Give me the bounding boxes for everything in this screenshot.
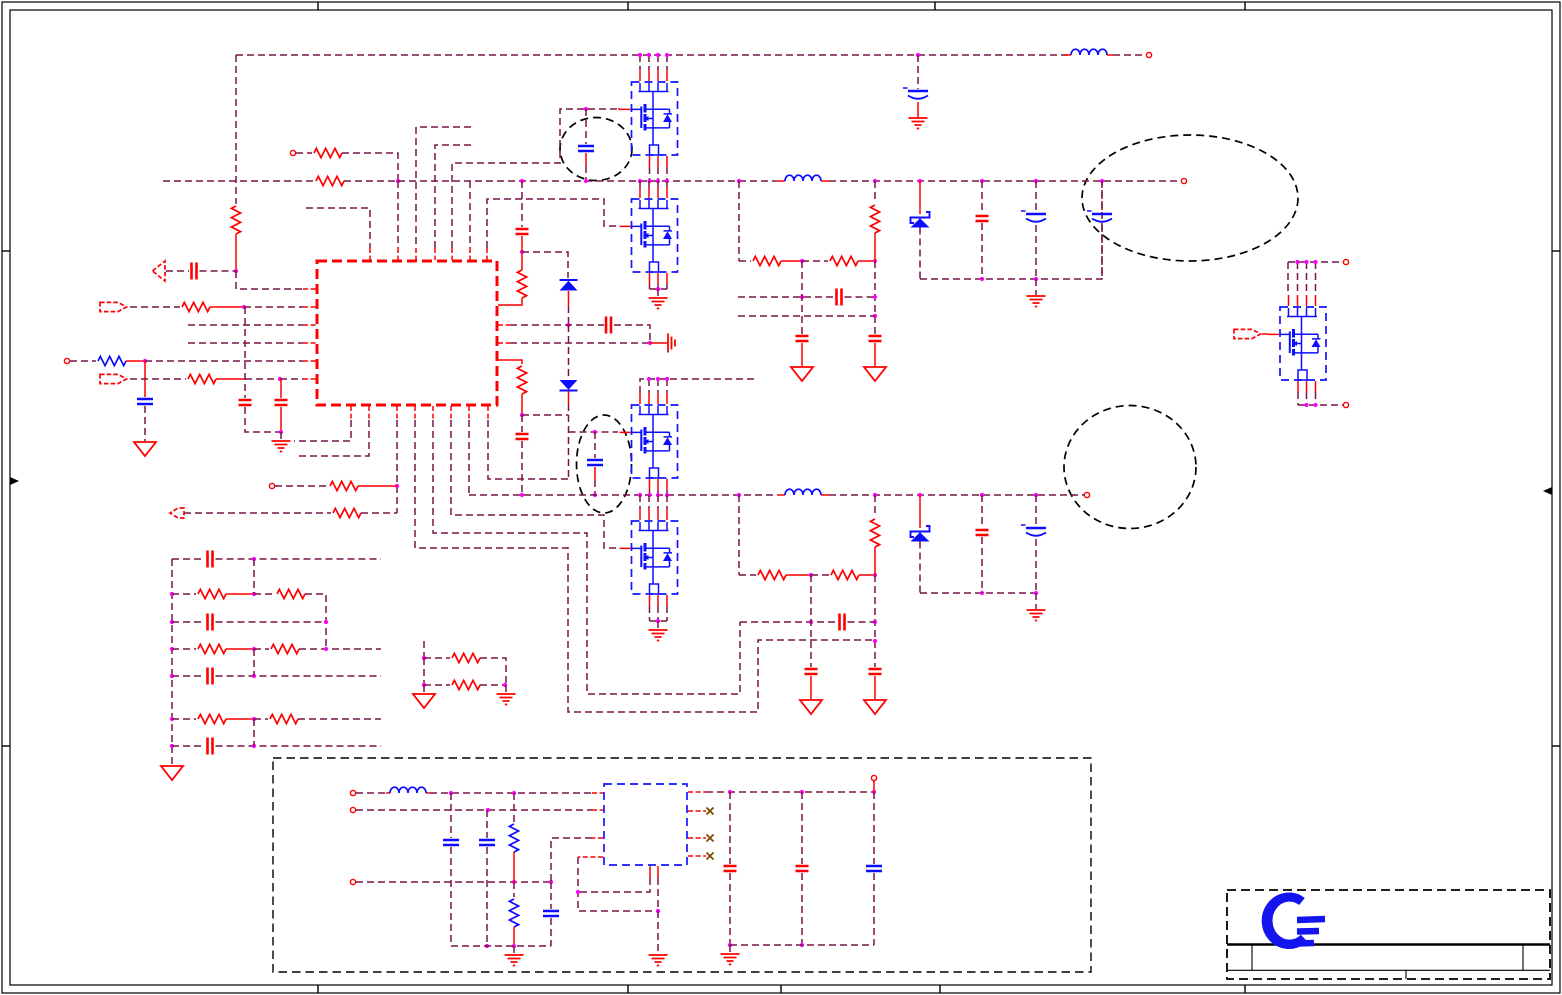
schottky diode D3 (buck1): [911, 212, 930, 228]
ground earth (730,954): [721, 954, 740, 965]
wire Q3 source pins to rail 495: [650, 490, 668, 495]
node junction (451,793): [449, 791, 453, 795]
MOSFET block Q5 (right side switch): [1268, 295, 1326, 392]
ground earth (506,694): [497, 694, 516, 705]
node junction (326,649): [324, 647, 328, 651]
node junction (875,181): [873, 179, 877, 183]
title block cell bottom line: [1227, 969, 1550, 971]
wire column 982: [981, 495, 983, 528]
terminal (67,361): [64, 358, 69, 363]
terminal (293,153): [290, 150, 295, 155]
node junction (982,495): [980, 493, 984, 497]
power arrow terminal (row 513): [170, 508, 184, 518]
wire Q2 drain pins from rail 181: [640, 181, 667, 187]
capacitor C30 (column 802): [796, 866, 809, 871]
wire column 487: [486, 810, 488, 838]
resistor R1 (in vertical branch x=236): [231, 206, 240, 234]
resistor R25 blue (column 514 upper): [509, 824, 518, 852]
ground earth (281,441): [272, 441, 291, 452]
node junction (254,559): [252, 557, 256, 561]
company logo bar 1: [1297, 919, 1325, 920]
node junction (505,685): [503, 683, 507, 687]
resistor R22 (row 719): [270, 714, 298, 723]
node junction (595,495): [593, 493, 597, 497]
wire inductor to terminal: [1064, 54, 1113, 56]
wire column 424: [423, 658, 425, 685]
capacitor C7 (column 522): [516, 229, 529, 234]
node junction (280,379): [278, 377, 282, 381]
inductor L4: [390, 787, 426, 793]
wire column 802: [801, 792, 803, 864]
ground triangle (172,766): [161, 766, 183, 780]
wire feedback row y=316: [738, 315, 875, 317]
highlight ellipse 1 (top right): [1082, 135, 1298, 261]
title block divider line: [1227, 943, 1550, 945]
node junction (488,810): [486, 808, 490, 812]
wire to earth: [513, 946, 515, 954]
node junction (1306.5,262): [1304, 260, 1308, 264]
ground earth (1036,296): [1027, 296, 1046, 307]
IC left pin row y=325: [188, 324, 303, 326]
node junction (802,261): [800, 259, 804, 263]
wire down to input cap: [917, 55, 919, 89]
resistor R2 (row 153): [314, 148, 342, 157]
resistor R7 (row 486): [330, 481, 358, 490]
terminal (1087,495): [1084, 492, 1089, 497]
wire junction to diode column: [522, 252, 568, 278]
MOSFET Q5 top rail y=262: [1288, 261, 1343, 263]
wire LDO pin y=838 to column 551: [592, 837, 603, 839]
inductor L2 (buck1 output) leads: [777, 180, 829, 182]
node junction (487,946): [485, 944, 489, 948]
resistor R12 (row 261): [830, 256, 858, 265]
wire row E y=676: [172, 675, 205, 677]
wire to schottky diode: [919, 495, 921, 528]
wire between divider resistors: [781, 260, 802, 262]
wire Q5 source pins to row 405: [1298, 392, 1343, 405]
capacitor C25 (row 746): [208, 738, 213, 755]
highlight ellipse 3 (around C at buck2 input): [577, 415, 632, 513]
capacitor C27 blue (column 487): [479, 840, 495, 845]
resistor R8 (row 513): [333, 508, 361, 517]
node junction (172,622): [170, 620, 174, 624]
node junction (875,261): [873, 259, 877, 263]
frame zone tick top 1: [317, 2, 319, 10]
frame zone tick bottom 2: [627, 985, 629, 993]
frame zone tick left 1: [2, 250, 10, 252]
IC bottom pin x=415 long route to buck2 fb row 640: [414, 406, 416, 420]
frame zone tick bottom 4: [1244, 985, 1246, 993]
power stage MOSFET block Q1 (buck1 high side): [620, 70, 678, 167]
ground earth (658,955): [649, 955, 668, 966]
node junction (424,658): [422, 656, 426, 660]
node junction (281,432): [279, 430, 283, 434]
wire diode to bottom row: [919, 542, 921, 594]
node junction (982,593): [980, 591, 984, 595]
node junction (522,415): [520, 413, 524, 417]
wire cap to ground triangle: [810, 676, 812, 699]
node junction (920,181): [918, 179, 922, 183]
terminal (1150,55): [1146, 52, 1151, 57]
small RC network stub: [423, 641, 425, 658]
node junction (586,109): [584, 107, 588, 111]
wire cap to ground triangle: [874, 343, 876, 366]
wire terminal to resistor: [296, 152, 312, 154]
capacitor column x=281 from row 379: [280, 379, 282, 398]
terminal (353,882): [350, 879, 355, 884]
wire terminal to blue resistor: [70, 360, 96, 362]
node junction (254,649): [252, 647, 256, 651]
wire junction to IC: [145, 360, 303, 362]
node junction (1306.5,405): [1304, 403, 1308, 407]
wire column 1036: [1035, 181, 1037, 212]
node junction (578,892): [576, 890, 580, 894]
wire Q1 gate stub: [618, 108, 620, 110]
wire junction to earth: [1035, 279, 1037, 295]
wire column 551 lower: [550, 882, 552, 909]
node junction (397,486): [395, 484, 399, 488]
wire column 875 rail to resistor: [874, 495, 876, 517]
IC left pin row y=343: [188, 342, 303, 344]
node junction (649,379): [647, 377, 651, 381]
capacitor C22 (row 559): [208, 551, 213, 568]
node junction (730,792): [728, 790, 732, 794]
wire resistor to corner: [342, 153, 398, 181]
diode D1 (pointing up): [560, 280, 578, 291]
resistor R16 (column 875 buck2 fb): [870, 519, 879, 547]
ground earth (658,630): [649, 630, 668, 641]
resistor R15 (row 575): [831, 570, 859, 579]
frame zone tick top 4: [1244, 2, 1246, 10]
node junction (172,594): [170, 592, 174, 596]
node junction (640,55): [638, 53, 642, 57]
wire Q1 drain pins to top rail: [640, 55, 667, 70]
capacitor C9 (column 522 low): [516, 434, 529, 439]
title block cell left divider: [1251, 945, 1253, 971]
no-connect X (711,856): [707, 853, 714, 860]
company logo ring: [1268, 897, 1304, 944]
terminal (353,810): [350, 807, 355, 812]
node junction (236,271): [234, 269, 238, 273]
node junction (595,432): [593, 430, 597, 434]
node junction (658,379): [656, 377, 660, 381]
resistor R26 blue (column 514 lower): [509, 899, 518, 927]
node junction (875,575): [873, 573, 877, 577]
wire cap down to rail 495: [521, 441, 523, 495]
wire diode to bottom row: [919, 228, 921, 280]
resistor R6 (row 379): [188, 374, 216, 383]
wire Q5 drain pins: [1288, 262, 1316, 295]
main controller IC U1: [317, 261, 497, 405]
resistor R17 (row 594): [198, 589, 226, 598]
polarized capacitor C2 (input bulk): [903, 88, 928, 99]
wire Q1 source pins to rail 181: [650, 167, 668, 181]
wire row y=882: [356, 881, 551, 883]
wire Q3 drain rail y=379: [640, 379, 758, 393]
wire cap to ground triangle: [801, 343, 803, 366]
inductor L3: [785, 489, 821, 495]
schottky diode D4 (buck2): [911, 526, 930, 542]
wire cap column x=586 upper: [585, 109, 587, 144]
node junction (172,746): [170, 744, 174, 748]
capacitor C26 blue (column 451): [443, 840, 459, 845]
node junction (172,649): [170, 647, 174, 651]
wire column 802 down: [801, 261, 803, 334]
no-connect X (711,811): [707, 808, 714, 815]
wire column 875 down: [874, 261, 876, 334]
wire rail y=181 left segment: [163, 180, 313, 182]
wire between divider resistors: [786, 574, 811, 576]
frame center arrow right: [1543, 487, 1552, 495]
node junction (254,746): [252, 744, 256, 748]
node junction (551,882): [549, 880, 553, 884]
resistor R20 (row 649): [271, 644, 299, 653]
capacitor C20 (column 982): [976, 530, 989, 535]
highlight ellipse 2 (around C at buck1 input): [560, 118, 632, 181]
wire column 522 down to cap: [521, 415, 523, 432]
node junction (254,719): [252, 717, 256, 721]
wire rail y=181 middle segment: [398, 180, 777, 182]
node junction (640,181): [638, 179, 642, 183]
node junction (658,495): [656, 493, 660, 497]
node junction (424,685): [422, 683, 426, 687]
node junction (739,181): [737, 179, 741, 183]
node junction (802,297): [800, 295, 804, 299]
wire terminal to inductor: [356, 792, 386, 794]
ground triangle (811,700): [800, 700, 822, 714]
node junction (145,361): [143, 359, 147, 363]
wire row y=810 to LDO: [356, 809, 592, 811]
wire capacitor to junction: [200, 270, 237, 272]
wire IC top pin x=435: [435, 145, 471, 248]
node junction (522,495): [520, 493, 524, 497]
LDO no-connect pin y=838: [688, 837, 706, 839]
wire column 739 down to divider row: [738, 181, 740, 261]
capacitor C1 (row 271): [192, 263, 197, 280]
frame zone tick bottom 1: [317, 985, 319, 993]
wire column 1036: [1035, 495, 1037, 526]
top rail wire y=55: [236, 54, 1068, 56]
node junction (982,181): [980, 179, 984, 183]
IC bottom pin x=488 route to gate net: [487, 406, 489, 420]
node junction (649.5,495): [647, 493, 651, 497]
IC bottom pin x=433 route to buck2 fb row 622: [432, 406, 434, 420]
capacitor C28 blue (column 551): [543, 911, 559, 916]
wire column 875 rail to resistor: [874, 181, 876, 203]
wire junction to ground earth: [280, 432, 282, 440]
wire row D y=649: [172, 648, 196, 650]
no-connect X (711,838): [707, 835, 714, 842]
node junction (802,792): [800, 790, 804, 794]
wire row A y=559: [172, 558, 205, 560]
node junction (326,622): [324, 620, 328, 624]
LDO regulator U2: [604, 784, 687, 865]
terminal (353,793): [350, 790, 355, 795]
capacitor C12 (column 802): [796, 336, 809, 341]
capacitor C24 (row 676): [208, 668, 213, 685]
IC bottom pin x=397 column: [396, 406, 398, 420]
wire row y=685: [424, 684, 450, 686]
polarized capacitor C15 (column 1102): [1101, 181, 1103, 212]
wire cap to junction 252: [521, 236, 523, 252]
capacitor C8 (row 325): [606, 317, 611, 334]
wire to schottky diode: [919, 181, 921, 214]
wire arrow to capacitor: [166, 270, 189, 272]
capacitor C11 (row 297): [837, 289, 842, 306]
capacitor C23 (row 622): [208, 614, 213, 631]
wire LDO output pin y=792: [688, 791, 706, 793]
node junction (172,676): [170, 674, 174, 678]
wire column 874: [873, 792, 875, 864]
wire junction to sideways earth: [650, 342, 667, 344]
wire feedback row y=622: [740, 621, 837, 623]
node junction (522,252): [520, 250, 524, 254]
IC right pin row y=343: [498, 342, 510, 344]
wire to earth: [505, 685, 507, 693]
wire row F y=719: [172, 718, 196, 720]
node junction (640,495): [638, 493, 642, 497]
resistor R19 (row 649): [198, 644, 226, 653]
company logo bar 2: [1297, 928, 1319, 935]
node junction (649.5,181): [647, 179, 651, 183]
wire column x=522 rail to cap: [521, 181, 523, 227]
node junction (802,945): [800, 943, 804, 947]
wire junction to diode column: [522, 414, 569, 416]
wire row C y=622: [172, 621, 205, 623]
wire junction to earth: [657, 621, 659, 629]
IC bottom pin x=451 route to Q4 gate: [450, 406, 452, 420]
IC left pin row y=379 power arrow: [100, 374, 127, 383]
IC bottom pin x=351 to ground row: [350, 406, 352, 420]
frame center arrow left: [10, 477, 19, 485]
node junction (875,495): [873, 493, 877, 497]
node junction (1297.5,262): [1295, 260, 1299, 264]
frame zone tick right 2: [1552, 745, 1560, 747]
bottom sub-circuit enclosure box: [273, 758, 1091, 972]
node junction (658,181): [656, 179, 660, 183]
frame zone tick top 3: [934, 2, 936, 10]
wire junction to earth: [1035, 593, 1037, 609]
node junction (1036,279): [1034, 277, 1038, 281]
capacitor C5 (column 245): [239, 400, 252, 405]
node junction (586,181): [584, 179, 588, 183]
inductor L1 (top rail): [1071, 49, 1107, 55]
resistor R10 (column 522 lower): [517, 366, 526, 394]
wire LDO pin y=857 column 578: [578, 856, 603, 858]
title block outer box: [1227, 890, 1550, 979]
wire cap to corner down: [614, 325, 650, 343]
ground triangle (875,367): [864, 367, 886, 381]
wire LDO bottom pin x=658: [657, 866, 659, 878]
node junction (514,793): [512, 791, 516, 795]
wire Q3 drain pins: [649, 379, 667, 393]
ground earth sideways (662,343): [668, 334, 675, 353]
wire terminal to resistor (row 486): [275, 485, 328, 487]
wire IC top pin x=416: [416, 127, 471, 248]
LDO no-connect pin y=856: [688, 855, 706, 857]
frame zone tick bottom center: [780, 985, 782, 993]
wire feedback row y=297: [738, 296, 834, 298]
node junction (649,55): [647, 53, 651, 57]
title block cell right divider: [1522, 945, 1524, 971]
wire junction to earth: [657, 911, 659, 954]
resistor R3 (row 181): [316, 176, 344, 185]
IC bottom pin x=369 stub row: [368, 406, 370, 420]
wire inductor to LDO pin: [430, 792, 592, 794]
wire IC top pin x=452 to MOSFET Q1 gate: [452, 109, 618, 248]
node junction (254,676): [252, 674, 256, 678]
wire to resistor R11: [739, 260, 751, 262]
wire row B y=594: [172, 593, 196, 595]
wire to resistor R14: [739, 574, 756, 576]
node junction (658,55): [656, 53, 660, 57]
ground triangle (145,442): [134, 442, 156, 456]
wire diode to row 325: [568, 291, 570, 306]
wire column 875 down: [874, 575, 876, 667]
capacitor C16 blue (in ellipse 3): [587, 460, 603, 465]
frame zone tick right 1: [1552, 250, 1560, 252]
IC right pin y=360 stub: [498, 360, 522, 364]
wire row y=658: [424, 657, 450, 659]
wire to ground triangle: [423, 685, 425, 693]
terminal (1184,181): [1181, 178, 1186, 183]
node junction (811,575): [809, 573, 813, 577]
wire column 254 A-B: [253, 559, 255, 594]
resistor R18 (row 594): [277, 589, 305, 598]
node junction (650,343): [648, 341, 652, 345]
capacitor C4 blue (row 361 decouple): [137, 399, 153, 404]
terminal (1346,405): [1343, 402, 1348, 407]
wire resistor to junction 415: [521, 394, 523, 415]
wire to earth: [729, 945, 731, 953]
wire cap to ground: [917, 102, 919, 117]
wire column 811 down: [810, 575, 812, 667]
inductor L4 (bottom box input) leads: [386, 792, 430, 794]
node junction (1315.5,262): [1313, 260, 1317, 264]
wire column 739 to divider row 575: [738, 495, 740, 575]
wire diode column to diode D2: [568, 325, 570, 379]
node junction (982,279): [980, 277, 984, 281]
wire Q2 source pins to ground row: [650, 284, 668, 289]
wire diode D2 down to row 479: [568, 391, 570, 404]
resistor R21 (row 719): [198, 714, 226, 723]
node junction (667,55): [665, 53, 669, 57]
wire resistor to junction 261: [874, 233, 876, 261]
node junction (875,641): [873, 639, 877, 643]
ground earth (658,298): [649, 298, 668, 309]
node junction (568.5,325): [566, 323, 570, 327]
frame zone tick top 2: [627, 2, 629, 10]
node junction (1315.5,405): [1313, 403, 1317, 407]
node junction (254,594): [252, 592, 256, 596]
wire cap to ground triangle: [874, 676, 876, 699]
polarized capacitor C21 (column 1036): [1021, 525, 1046, 536]
wire column 451: [450, 793, 452, 838]
resistor R13 (column 875 buck1 fb): [870, 205, 879, 233]
ground earth (1036,610): [1027, 610, 1046, 621]
resistor R9 (column 522 upper): [517, 270, 526, 298]
power stage MOSFET block Q4 (buck2 low side): [620, 509, 678, 606]
wire IC top pin x=470 to rail: [469, 181, 471, 248]
IC right pin row y=325: [498, 324, 510, 326]
left sense network column x=172: [171, 559, 173, 765]
polarized capacitor C14 (column 1036): [1021, 211, 1046, 222]
wire column 514 upper: [513, 793, 515, 822]
node junction (398,181): [396, 179, 400, 183]
wire column 254 F-G: [253, 719, 255, 746]
title block lower strip divider: [1405, 970, 1407, 979]
capacitor C19 (column 811): [805, 669, 818, 674]
